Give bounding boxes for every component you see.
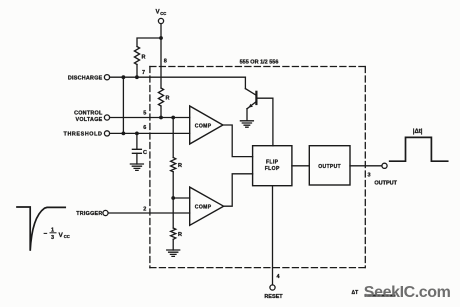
junction trigger comparator reference	[171, 196, 175, 200]
svg-text:THRESHOLD: THRESHOLD	[64, 132, 103, 138]
wire resistor to discharge row	[136, 65, 138, 78]
svg-text:COMP: COMP	[195, 124, 212, 130]
svg-text:TRIGGER: TRIGGER	[76, 211, 102, 217]
label -1/3 Vcc	[44, 228, 70, 242]
wire to external resistor	[137, 38, 161, 47]
svg-text:4: 4	[277, 274, 281, 280]
resistor R external timing	[134, 47, 139, 65]
transistor Q1 discharge	[245, 77, 256, 121]
node TRIGGER pin 2	[76, 207, 146, 218]
ground capacitor	[130, 164, 143, 170]
svg-text:5: 5	[143, 110, 146, 116]
svg-text:DISCHARGE: DISCHARGE	[68, 76, 103, 82]
svg-text:FLOP: FLOP	[265, 166, 280, 172]
wire divider mid	[172, 118, 174, 158]
junction capacitor top	[135, 132, 139, 136]
resistor R divider mid	[171, 158, 176, 172]
flip-flop block	[253, 146, 292, 186]
svg-text:R: R	[142, 55, 146, 61]
svg-text:|Δt|: |Δt|	[413, 129, 423, 135]
node RESET pin 4	[264, 274, 283, 300]
svg-text:R: R	[178, 232, 182, 238]
wire divider R to control row	[160, 106, 162, 118]
node OUTPUT pin 3	[368, 163, 398, 186]
svg-text:3: 3	[51, 235, 54, 241]
svg-text:CC: CC	[64, 234, 70, 239]
junction discharge link	[122, 75, 126, 79]
svg-text:R: R	[166, 96, 170, 102]
svg-text:SeekIC.com: SeekIC.com	[364, 284, 451, 301]
wire discharge row	[110, 76, 246, 78]
svg-text:OUTPUT: OUTPUT	[318, 164, 341, 170]
svg-text:RESET: RESET	[264, 294, 283, 300]
wire comparator1 output to flip-flop	[223, 125, 253, 157]
svg-text:OUTPUT: OUTPUT	[374, 181, 397, 187]
wire capacitor lead	[136, 133, 138, 149]
wire transistor base to flip-flop	[256, 98, 273, 146]
junction Vcc branch	[159, 36, 163, 40]
junction discharge resistor	[135, 75, 139, 79]
wire divider lower	[172, 198, 174, 228]
ground transistor emitter	[240, 121, 253, 127]
output waveform	[390, 137, 448, 161]
output block	[309, 146, 350, 185]
svg-text:ΔT: ΔT	[352, 290, 359, 296]
svg-text:7: 7	[142, 70, 145, 76]
svg-text:6: 6	[143, 125, 146, 131]
wire Vcc vertical pin 8	[160, 38, 162, 88]
svg-text:R: R	[178, 163, 182, 169]
node DISCHARGE pin 7	[68, 70, 145, 82]
wire flip-flop to output block	[292, 165, 309, 167]
resistor R divider top	[158, 88, 163, 106]
resistor R divider bottom	[171, 228, 176, 239]
junction divider R bottom	[159, 116, 163, 120]
555 dashed package boundary	[150, 67, 365, 268]
wire resistor to ground	[172, 239, 174, 250]
svg-text:555 OR 1/2 556: 555 OR 1/2 556	[240, 59, 279, 65]
trigger input waveform	[17, 207, 65, 251]
op-amp COMP threshold comparator	[190, 106, 223, 144]
junction divider continue	[171, 116, 175, 120]
svg-text:−: −	[44, 231, 48, 238]
wire threshold row	[110, 132, 190, 134]
wire discharge-threshold link	[122, 77, 124, 133]
wire reference to comparator	[173, 197, 190, 199]
svg-text:CC: CC	[160, 11, 166, 16]
node THRESHOLD pin 6	[64, 125, 147, 138]
op-amp COMP trigger comparator	[190, 187, 224, 225]
svg-text:COMP: COMP	[195, 205, 212, 211]
wire output to terminal	[350, 165, 382, 167]
wire Vcc stem	[160, 24, 162, 38]
capacitor C	[132, 149, 141, 153]
svg-text:C: C	[143, 150, 147, 156]
ground divider	[167, 250, 180, 256]
svg-text:VOLTAGE: VOLTAGE	[75, 117, 102, 123]
node CONTROL VOLTAGE pin 5	[74, 110, 146, 123]
svg-text:CONTROL: CONTROL	[74, 110, 103, 116]
wire trigger row	[108, 212, 190, 214]
wire comparator2 output to flip-flop	[224, 174, 253, 206]
wire to trigger ref junction	[172, 172, 174, 198]
svg-text:FLIP: FLIP	[266, 160, 279, 166]
wire control row	[110, 117, 190, 119]
wire capacitor to ground	[136, 153, 138, 164]
svg-text:8: 8	[164, 58, 167, 64]
node Vcc	[156, 9, 167, 24]
junction threshold link	[122, 132, 126, 136]
svg-text:2: 2	[143, 207, 146, 213]
wire reset from flip-flop	[272, 186, 274, 285]
svg-text:3: 3	[368, 172, 371, 178]
